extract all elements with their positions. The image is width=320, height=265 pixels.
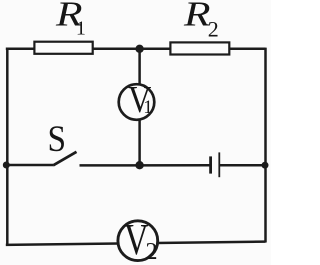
wire V1 branch vertical [138,48,141,165]
wire right vertical [264,48,267,243]
wire middle rail left segment [7,164,53,167]
svg-text:2: 2 [146,239,158,265]
voltmeter V2 circle [118,221,158,261]
svg-text:1: 1 [76,18,86,40]
resistor R1 [34,42,92,54]
switch S blade [53,152,77,166]
junction node middle-left [3,162,10,169]
voltmeter V1 label [128,79,153,121]
label R1 [55,0,86,40]
junction node middle-right [262,162,269,169]
wire middle rail right segment [220,164,266,167]
junction node middle (V1/rail) [135,161,143,169]
resistor R2 [170,42,229,54]
voltmeter V1 circle [119,84,155,120]
label R2 [183,0,219,42]
wire left vertical [6,48,9,246]
svg-text:2: 2 [208,17,219,42]
wire middle rail center segment [80,164,210,167]
battery short plate (negative) [209,156,212,173]
junction node top (R1/R2/V1) [135,45,143,53]
svg-text:S: S [48,118,67,159]
svg-text:R: R [183,0,211,33]
svg-text:1: 1 [143,97,153,118]
battery long plate (positive) [218,152,220,177]
wire top rail [6,48,266,51]
voltmeter V2 label [124,215,158,265]
wire bottom rail [6,242,266,245]
